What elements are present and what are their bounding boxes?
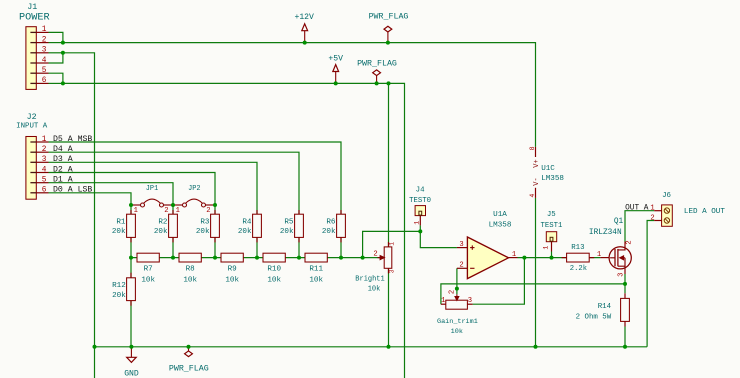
svg-text:R2: R2: [158, 218, 168, 226]
svg-text:R6: R6: [326, 218, 336, 226]
svg-text:D4 A: D4 A: [53, 145, 73, 154]
svg-text:JP1: JP1: [146, 185, 158, 193]
svg-text:LED A OUT: LED A OUT: [684, 208, 725, 216]
svg-text:10k: 10k: [267, 277, 281, 285]
svg-text:+5V: +5V: [328, 55, 343, 64]
svg-text:10k: 10k: [225, 277, 239, 285]
svg-text:R8: R8: [186, 266, 196, 274]
svg-text:3: 3: [389, 269, 396, 273]
svg-text:LM358: LM358: [489, 221, 512, 229]
svg-text:2.2k: 2.2k: [570, 265, 587, 273]
svg-text:1: 1: [413, 221, 420, 225]
svg-text:6: 6: [42, 187, 47, 195]
svg-text:PWR_FLAG: PWR_FLAG: [169, 365, 209, 374]
svg-text:4: 4: [42, 57, 47, 65]
svg-text:GND: GND: [124, 370, 139, 378]
svg-text:J4: J4: [416, 187, 425, 195]
svg-text:D0 A LSB: D0 A LSB: [53, 186, 92, 195]
svg-text:R12: R12: [112, 282, 126, 290]
svg-text:8: 8: [529, 146, 536, 150]
svg-text:6: 6: [42, 77, 47, 85]
svg-text:1: 1: [42, 136, 47, 144]
svg-text:IRLZ34N: IRLZ34N: [589, 229, 622, 237]
svg-text:10k: 10k: [309, 277, 323, 285]
svg-text:U1C: U1C: [541, 165, 555, 173]
svg-text:R14: R14: [598, 303, 612, 311]
svg-text:5: 5: [42, 67, 47, 75]
svg-text:4: 4: [529, 194, 536, 198]
svg-text:2 Ohm 5W: 2 Ohm 5W: [576, 313, 612, 321]
svg-text:20k: 20k: [154, 228, 168, 236]
svg-text:4: 4: [42, 166, 47, 174]
svg-text:1: 1: [42, 26, 47, 34]
svg-text:20k: 20k: [280, 228, 294, 236]
svg-text:3: 3: [459, 241, 463, 249]
svg-text:J6: J6: [662, 192, 671, 200]
svg-text:2: 2: [459, 261, 463, 269]
svg-text:10k: 10k: [368, 285, 381, 293]
svg-text:3: 3: [468, 297, 472, 305]
svg-text:20k: 20k: [322, 228, 336, 236]
svg-text:+12V: +12V: [294, 13, 314, 22]
svg-text:PWR_FLAG: PWR_FLAG: [369, 13, 409, 22]
svg-text:TEST0: TEST0: [409, 197, 431, 205]
svg-text:LM358: LM358: [541, 175, 564, 183]
svg-text:2: 2: [42, 146, 47, 154]
svg-text:R5: R5: [284, 218, 294, 226]
svg-text:OUT A: OUT A: [625, 204, 649, 212]
svg-text:2: 2: [449, 290, 457, 294]
svg-text:10k: 10k: [141, 277, 155, 285]
svg-text:10k: 10k: [183, 277, 197, 285]
svg-text:20k: 20k: [238, 228, 252, 236]
svg-text:3: 3: [42, 156, 47, 164]
svg-text:2: 2: [625, 240, 633, 244]
svg-text:R1: R1: [116, 218, 126, 226]
svg-text:1: 1: [650, 205, 654, 213]
svg-text:J2: J2: [27, 112, 37, 122]
svg-text:R9: R9: [228, 266, 238, 274]
svg-text:20k: 20k: [112, 292, 126, 300]
svg-text:U1A: U1A: [493, 211, 507, 219]
svg-text:V-: V-: [533, 177, 541, 185]
svg-text:2: 2: [650, 214, 654, 222]
svg-text:R4: R4: [242, 218, 252, 226]
svg-text:R10: R10: [267, 266, 281, 274]
svg-text:2: 2: [373, 250, 377, 258]
svg-text:2: 2: [206, 207, 210, 215]
svg-text:10k: 10k: [451, 328, 463, 336]
svg-text:1: 1: [134, 207, 138, 215]
svg-text:Q1: Q1: [614, 218, 624, 226]
svg-text:R3: R3: [200, 218, 210, 226]
svg-text:1: 1: [512, 251, 516, 259]
svg-text:1: 1: [597, 251, 601, 259]
svg-text:POWER: POWER: [19, 12, 50, 23]
svg-text:1: 1: [542, 246, 549, 250]
svg-text:D3 A: D3 A: [53, 155, 73, 164]
svg-text:R11: R11: [309, 266, 323, 274]
svg-text:R7: R7: [144, 266, 153, 274]
svg-text:D5 A MSB: D5 A MSB: [53, 135, 92, 144]
svg-text:J5: J5: [547, 211, 556, 219]
svg-text:JP2: JP2: [188, 185, 200, 193]
svg-text:D1 A: D1 A: [53, 176, 73, 185]
svg-text:1: 1: [441, 297, 445, 305]
svg-text:R13: R13: [571, 244, 584, 252]
svg-text:V+: V+: [533, 159, 541, 167]
svg-text:5: 5: [42, 176, 47, 184]
svg-text:20k: 20k: [112, 228, 126, 236]
svg-text:J1: J1: [27, 2, 37, 12]
svg-text:Gain_trim1: Gain_trim1: [437, 318, 478, 326]
svg-text:3: 3: [42, 47, 47, 55]
svg-text:2: 2: [42, 36, 47, 44]
svg-text:3: 3: [617, 273, 625, 277]
svg-text:1: 1: [389, 242, 396, 246]
svg-text:TEST1: TEST1: [541, 222, 564, 230]
svg-text:2: 2: [164, 207, 168, 215]
svg-text:1: 1: [176, 207, 180, 215]
svg-text:20k: 20k: [196, 228, 210, 236]
svg-text:Bright1: Bright1: [355, 275, 384, 283]
svg-text:INPUT A: INPUT A: [16, 122, 48, 130]
svg-text:D2 A: D2 A: [53, 165, 73, 174]
svg-text:PWR_FLAG: PWR_FLAG: [357, 60, 397, 69]
